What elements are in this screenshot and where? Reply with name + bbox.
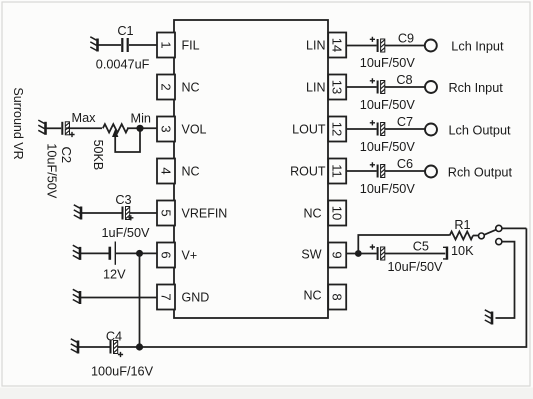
svg-text:10uF/50V: 10uF/50V <box>360 140 416 154</box>
svg-text:10uF/50V: 10uF/50V <box>388 260 444 274</box>
svg-text:4: 4 <box>159 167 174 174</box>
svg-text:LIN: LIN <box>306 38 325 52</box>
svg-text:3: 3 <box>159 125 174 132</box>
svg-text:Surround VR: Surround VR <box>11 87 25 159</box>
svg-text:10K: 10K <box>451 244 474 258</box>
svg-text:Lch Output: Lch Output <box>449 123 512 137</box>
svg-text:C5: C5 <box>413 239 429 253</box>
svg-text:1uF/50V: 1uF/50V <box>102 226 150 240</box>
svg-text:NC: NC <box>303 288 321 302</box>
svg-text:10uF/50V: 10uF/50V <box>44 143 58 199</box>
svg-text:Min: Min <box>131 112 151 126</box>
svg-text:SW: SW <box>301 247 321 261</box>
svg-text:VREFIN: VREFIN <box>182 206 228 220</box>
svg-text:14: 14 <box>330 38 345 52</box>
svg-text:10uF/50V: 10uF/50V <box>360 182 416 196</box>
svg-text:C3: C3 <box>115 193 131 207</box>
svg-text:C1: C1 <box>117 24 133 38</box>
svg-text:Rch Output: Rch Output <box>448 165 513 179</box>
svg-text:12: 12 <box>330 122 345 136</box>
svg-text:Lch Input: Lch Input <box>451 39 504 53</box>
svg-text:8: 8 <box>330 293 345 300</box>
svg-text:C4: C4 <box>106 330 122 344</box>
svg-text:9: 9 <box>330 251 345 258</box>
svg-text:100uF/16V: 100uF/16V <box>91 365 154 379</box>
svg-text:NC: NC <box>182 80 200 94</box>
svg-text:13: 13 <box>330 80 345 94</box>
svg-text:Rch Input: Rch Input <box>449 81 504 95</box>
svg-text:R1: R1 <box>454 218 470 232</box>
svg-text:11: 11 <box>330 164 345 178</box>
svg-text:V+: V+ <box>182 248 198 262</box>
svg-text:10uF/50V: 10uF/50V <box>360 56 416 70</box>
svg-text:C9: C9 <box>398 32 414 46</box>
svg-text:LIN: LIN <box>306 80 325 94</box>
svg-text:FIL: FIL <box>182 38 200 52</box>
svg-text:NC: NC <box>182 164 200 178</box>
svg-text:NC: NC <box>303 206 321 220</box>
svg-text:50KB: 50KB <box>91 140 105 171</box>
svg-text:12V: 12V <box>103 267 126 281</box>
svg-text:2: 2 <box>159 83 174 90</box>
svg-text:10uF/50V: 10uF/50V <box>360 98 416 112</box>
svg-text:VOL: VOL <box>182 122 207 136</box>
svg-text:LOUT: LOUT <box>292 122 326 136</box>
svg-text:6: 6 <box>159 251 174 258</box>
svg-text:C7: C7 <box>397 115 413 129</box>
svg-text:Max: Max <box>72 111 97 125</box>
svg-text:5: 5 <box>159 209 174 216</box>
svg-text:10: 10 <box>330 206 345 220</box>
svg-text:GND: GND <box>182 290 210 304</box>
svg-text:7: 7 <box>159 293 174 300</box>
svg-text:C8: C8 <box>396 73 412 87</box>
svg-text:C2: C2 <box>59 146 74 163</box>
svg-text:0.0047uF: 0.0047uF <box>96 58 150 72</box>
svg-text:ROUT: ROUT <box>290 164 326 178</box>
svg-text:1: 1 <box>159 41 174 48</box>
svg-text:C6: C6 <box>397 157 413 171</box>
